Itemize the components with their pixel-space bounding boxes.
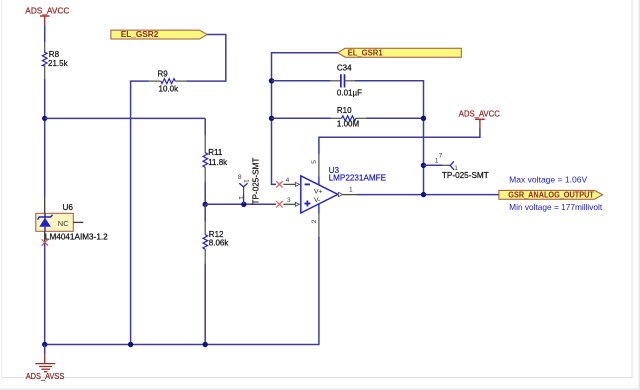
op-amp pin 4 stub with arrow xyxy=(283,182,299,186)
svg-text:3: 3 xyxy=(287,197,291,204)
svg-text:ADS_AVSS: ADS_AVSS xyxy=(26,372,65,381)
node junction R11/R12/pin3 xyxy=(203,202,208,207)
svg-text:Max voltage = 1.06V: Max voltage = 1.06V xyxy=(509,176,588,185)
wire corner down to R11 xyxy=(204,118,206,135)
wire pin2 to bottom rail xyxy=(45,237,319,345)
wire R12 to bottom rail xyxy=(204,263,206,344)
svg-text:10.0k: 10.0k xyxy=(159,85,180,94)
svg-text:TP-025-SMT: TP-025-SMT xyxy=(442,171,489,180)
svg-text:TP-025-SMT: TP-025-SMT xyxy=(252,158,261,205)
test point TP 7 (right) xyxy=(443,161,454,169)
voltage reference U6 xyxy=(36,197,84,243)
no-connect X pin3 xyxy=(276,201,282,207)
node junction TP7 xyxy=(421,163,426,168)
svg-text:EL_GSR1: EL_GSR1 xyxy=(348,49,384,58)
svg-text:C34: C34 xyxy=(337,64,352,73)
svg-text:R9: R9 xyxy=(158,69,169,78)
svg-text:V+: V+ xyxy=(314,188,323,195)
plus symbol xyxy=(304,201,310,207)
wire EL_GSR1 to feedback column xyxy=(272,53,338,185)
svg-text:LMP2231AMFE: LMP2231AMFE xyxy=(329,173,387,182)
minus symbol xyxy=(305,183,310,185)
no-connect X pin4 xyxy=(276,181,282,187)
wire node down to R12 xyxy=(204,204,206,222)
svg-text:R10: R10 xyxy=(337,106,352,115)
node junction output column xyxy=(421,192,426,197)
node junction R8/R11 xyxy=(42,116,47,121)
svg-text:Min voltage = 177millivolt: Min voltage = 177millivolt xyxy=(509,203,603,212)
node junction R10 left xyxy=(269,116,274,121)
no-connect X U6 anode xyxy=(42,239,48,245)
svg-text:1: 1 xyxy=(349,187,353,194)
wire C34 left xyxy=(272,80,331,82)
svg-text:EL_GSR2: EL_GSR2 xyxy=(121,30,159,39)
wire R8 down to U6 xyxy=(44,79,46,197)
wire R10 right to column xyxy=(367,117,424,119)
svg-text:0.01µF: 0.01µF xyxy=(337,89,362,98)
node junction C34 left xyxy=(269,78,274,83)
capacitor C34 xyxy=(331,74,355,87)
net label flag EL_GSR1 xyxy=(338,48,462,57)
svg-text:GSR_ANALOG_OUTPUT: GSR_ANALOG_OUTPUT xyxy=(508,191,594,200)
op-amp pin 3 stub with arrow xyxy=(283,202,299,206)
svg-text:R8: R8 xyxy=(49,50,60,59)
wire output to flag xyxy=(357,194,500,196)
svg-text:1.00M: 1.00M xyxy=(337,119,360,128)
wire R11 to node xyxy=(204,182,206,204)
svg-text:8.06k: 8.06k xyxy=(209,239,230,248)
wire R10 left xyxy=(272,117,332,119)
svg-text:11.8k: 11.8k xyxy=(208,158,228,167)
svg-text:2: 2 xyxy=(311,219,318,223)
svg-text:7: 7 xyxy=(439,153,443,160)
wire AVCC right to op-amp pin5 xyxy=(319,129,480,155)
svg-text:1: 1 xyxy=(242,179,249,183)
wire TP7 stub xyxy=(424,164,443,166)
node junction R10 right xyxy=(421,116,426,121)
svg-text:21.5k: 21.5k xyxy=(48,59,69,68)
svg-text:R11: R11 xyxy=(208,148,223,157)
node junction test point TP8 xyxy=(241,202,246,207)
op-amp pin 2 (V-) xyxy=(318,204,320,237)
svg-text:V-: V- xyxy=(314,197,320,204)
wire R9 left down to bottom rail xyxy=(131,81,150,344)
op-amp output pin 1 xyxy=(338,192,357,196)
power symbol ADS_AVCC (right) xyxy=(459,110,500,129)
sheet border bottom xyxy=(2,377,633,379)
resistor R10 xyxy=(331,116,367,121)
power symbol ADS_AVCC (top left) xyxy=(25,7,69,26)
wire AVCC to R8 xyxy=(44,26,46,43)
svg-text:5: 5 xyxy=(311,160,318,164)
svg-text:ADS_AVCC: ADS_AVCC xyxy=(459,110,500,119)
resistor R8 xyxy=(42,42,47,79)
node junction rail/ground xyxy=(42,342,47,347)
svg-text:8: 8 xyxy=(238,174,242,181)
image edge right xyxy=(638,0,640,390)
wire EL_GSR2 to R9 xyxy=(186,35,225,82)
wire C34 right to column xyxy=(355,81,424,195)
ground ADS_AVSS xyxy=(35,345,55,372)
resistor R12 xyxy=(203,222,208,263)
wire U6 to bottom rail xyxy=(44,243,46,345)
net label flag GSR_ANALOG_OUTPUT xyxy=(499,190,603,199)
wire junction to R11 (horizontal) xyxy=(45,117,206,119)
op-amp U1 triangle xyxy=(301,176,338,213)
svg-text:LM4041AIM3-1.2: LM4041AIM3-1.2 xyxy=(45,232,108,241)
resistor R9 xyxy=(149,79,186,84)
sheet border right xyxy=(631,0,633,378)
svg-text:1: 1 xyxy=(435,158,439,165)
op-amp pin 5 (V+) xyxy=(318,154,320,185)
resistor R11 xyxy=(203,135,208,182)
sheet border left xyxy=(1,0,3,378)
wire node to op-amp pin 3 xyxy=(205,203,276,205)
image edge bottom xyxy=(0,388,640,390)
svg-text:4: 4 xyxy=(286,177,290,184)
svg-text:U6: U6 xyxy=(63,203,74,212)
net label flag EL_GSR2 xyxy=(111,30,207,39)
node junction rail R9 xyxy=(128,342,133,347)
svg-text:1: 1 xyxy=(237,196,244,200)
svg-text:NC: NC xyxy=(58,219,69,228)
svg-text:ADS_AVCC: ADS_AVCC xyxy=(25,7,69,16)
node junction rail R12 xyxy=(203,342,208,347)
test point TP 8 (left) xyxy=(239,183,247,204)
